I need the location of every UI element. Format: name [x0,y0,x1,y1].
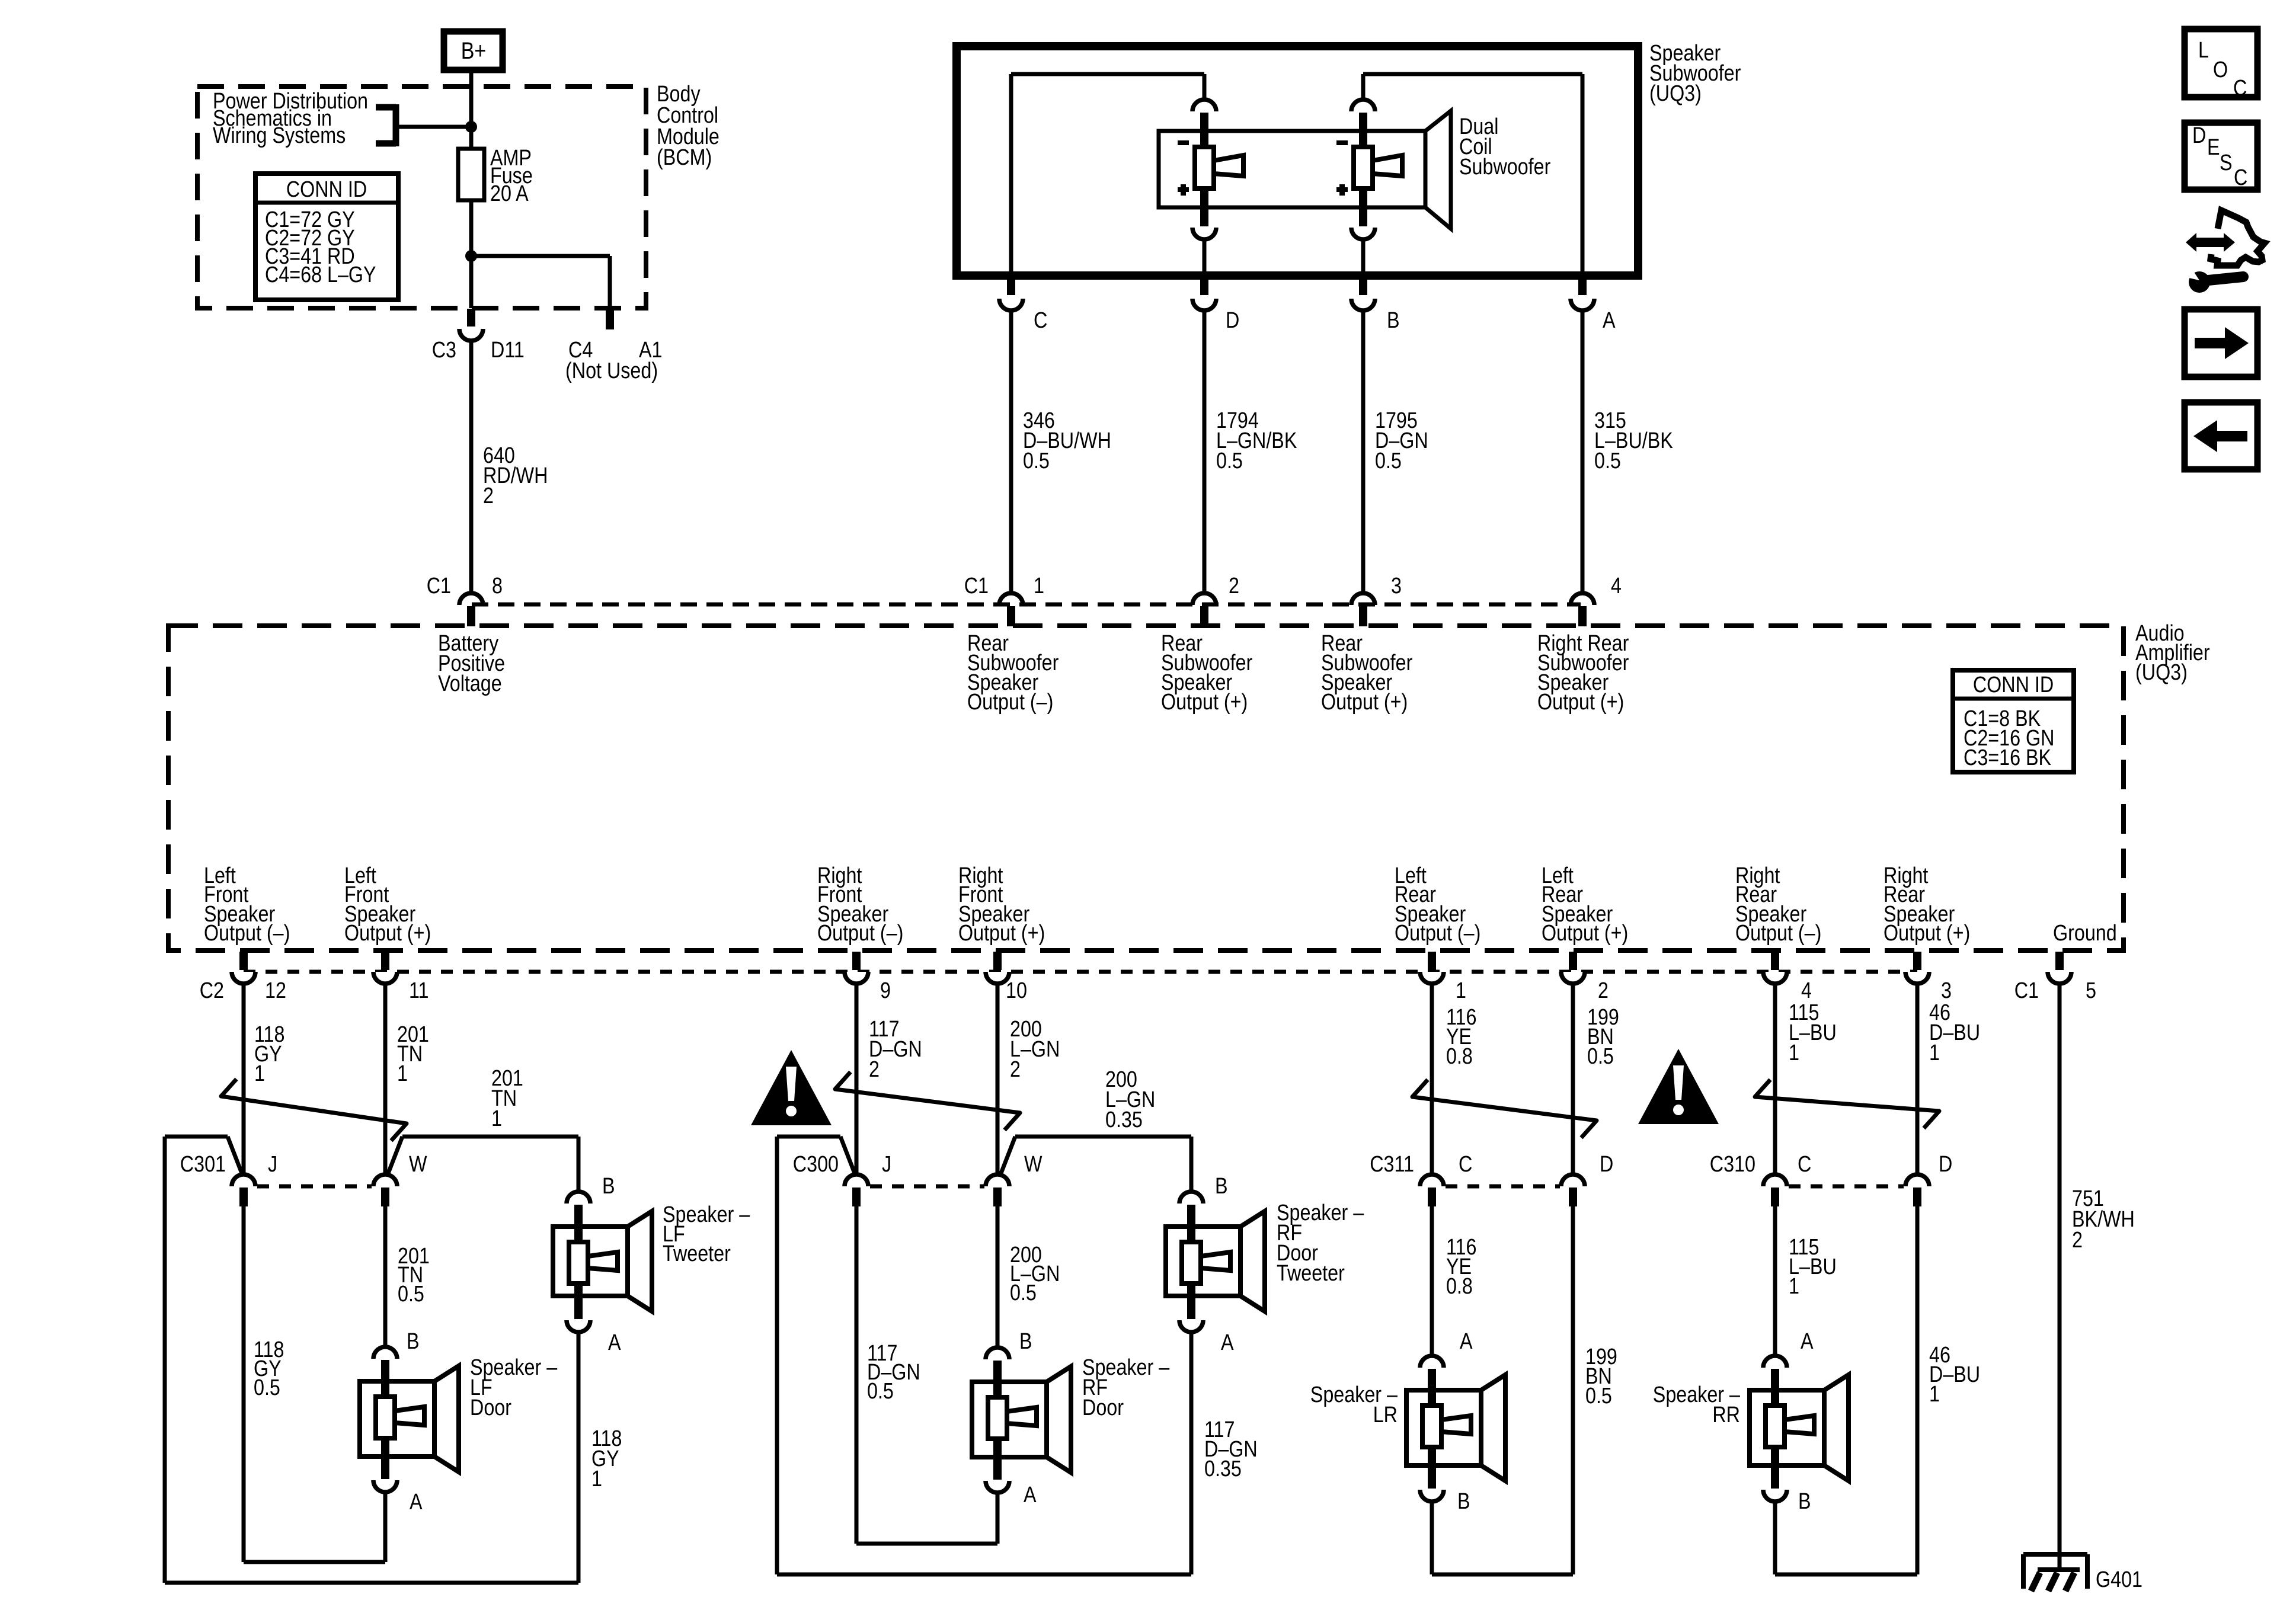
svg-text:0.5: 0.5 [867,1379,894,1404]
wire amp pin to connector row x=2654 [1571,985,1575,1173]
connector row dashed line C311 [1446,1185,1560,1189]
wire label 115 L-BU 1 (speaker side) [1789,1235,1837,1299]
svg-text:Door: Door [1082,1395,1124,1420]
svg-text:Wiring Systems: Wiring Systems [213,123,346,148]
wire right coil to box edge [1361,239,1366,274]
label A (LF tweeter) [608,1330,621,1355]
label Rear Subwoofer Speaker Output (+) pin2 [1161,631,1253,715]
svg-text:D: D [1600,1152,1613,1177]
connector C300 pin J [845,1174,868,1206]
label Right Rear Speaker Output (–) [1735,863,1821,946]
svg-text:0.35: 0.35 [1204,1457,1242,1481]
svg-text:Output (+): Output (+) [1161,690,1248,715]
svg-text:0.5: 0.5 [254,1375,280,1400]
subwoofer left coil bottom terminal [1192,187,1216,239]
label B (subwoofer) [1387,308,1400,333]
wire 117 D-GN 0.35 (RF tweeter A loop to C300-J) [777,1137,1191,1574]
pin label 2 [1229,574,1239,598]
polarity plus right coil [1336,184,1348,196]
svg-text:(Not Used): (Not Used) [565,359,658,383]
RF tweeter branch from C300-W [1001,1137,1191,1190]
label Left Rear Speaker Output (+) [1542,863,1628,946]
svg-text:3: 3 [1941,978,1952,1003]
wire 751 BK/WH 2 (ground) [2058,985,2062,1570]
wire label 46 D-BU 1 (amp side) [1929,1000,1980,1065]
svg-text:Output (–): Output (–) [204,921,290,946]
pin label 2 (C2) [1598,978,1609,1003]
svg-text:C2: C2 [200,978,224,1003]
wire label 1795 D–GN 0.5 [1375,408,1428,473]
svg-text:(BCM): (BCM) [657,145,712,170]
speaker LF tweeter terminal A connector [567,1282,590,1332]
speaker RF door terminal A connector [986,1438,1009,1493]
label G401 [2096,1567,2142,1592]
pin label 1 (C2) [1456,978,1466,1003]
svg-text:C300: C300 [793,1152,839,1177]
svg-text:A: A [1801,1329,1814,1354]
label A (RR) [1801,1329,1814,1354]
wire label 116 YE 0.8 (amp side) [1446,1005,1476,1069]
speaker - RR [1750,1375,1849,1481]
label Ground [2053,921,2117,946]
label Speaker RF Door Tweeter [1277,1201,1364,1286]
svg-text:0.5: 0.5 [1010,1281,1037,1305]
svg-text:Output (+): Output (+) [344,921,431,946]
svg-text:9: 9 [880,978,891,1003]
pin label 10 [1006,978,1027,1003]
svg-text:C1: C1 [427,574,451,598]
twisted pair symbol LF [221,1079,407,1141]
svg-text:L: L [2198,38,2209,63]
svg-text:J: J [882,1152,891,1177]
wire 199 BN 0.5 (LR B loop to C311-D) [1432,1206,1573,1574]
svg-text:0.5: 0.5 [1587,1044,1614,1069]
subwoofer horn cone [1425,111,1451,229]
pin label 12 [265,978,286,1003]
ground G401 symbol [2023,1554,2087,1591]
svg-text:2: 2 [1010,1057,1021,1082]
connector pin 10 at amplifier bottom edge [986,952,1009,984]
fuse AMP Fuse 20 A [458,149,484,200]
svg-text:C4=68 L–GY: C4=68 L–GY [265,263,376,287]
svg-text:Subwoofer: Subwoofer [1459,155,1551,180]
subwoofer internal wire C side [1011,74,1204,274]
connector pin 4 at amplifier bottom edge [1763,952,1787,984]
svg-text:Tweeter: Tweeter [663,1241,731,1266]
wire branch to C4 A1 stub [471,256,610,308]
svg-text:C: C [1034,308,1047,333]
label B (LR) [1457,1489,1470,1514]
connector C300 pin W [986,1174,1009,1206]
wire 117 D-GN 0.5 (C300-J to RF door A) [856,1206,997,1544]
label C (C311) [1459,1152,1472,1177]
svg-text:1: 1 [1456,978,1466,1003]
connector row dashed line C301 [257,1185,372,1189]
svg-text:C: C [2233,76,2247,101]
connector row dashed line C300 [870,1185,984,1189]
svg-text:2: 2 [483,484,494,508]
wire amp pin to connector row x=411 [242,985,246,1173]
wire 315 L–BU/BK [1581,312,1585,592]
wire label 117 D-GN 2 [869,1017,922,1082]
connector C1 pin 8 into amplifier [459,593,483,626]
svg-text:C3=16 BK: C3=16 BK [1964,745,2052,770]
svg-text:J: J [268,1152,277,1177]
label Right Rear Speaker Output (+) [1884,863,1970,946]
connector C311 pin D [1561,1174,1585,1206]
svg-text:Output (+): Output (+) [1321,690,1408,715]
svg-text:4: 4 [1611,574,1622,598]
label Right Front Speaker Output (–) [817,863,903,946]
wire 346 D–BU/WH [1009,312,1013,592]
label Speaker LF Tweeter [663,1202,750,1266]
label Left Front Speaker Output (+) [344,863,431,946]
CONN ID table (amplifier) [1953,670,2074,772]
svg-text:C311: C311 [1370,1152,1414,1177]
label C310 [1710,1152,1755,1177]
svg-text:(UQ3): (UQ3) [2135,660,2188,685]
label A (RF door) [1024,1483,1037,1507]
label Right Rear Subwoofer Speaker Output (+) [1537,631,1629,715]
power symbol B+ (battery positive terminal) [444,31,503,70]
label C (subwoofer) [1034,308,1047,333]
svg-text:1: 1 [1034,574,1044,598]
label C311 [1370,1152,1414,1177]
svg-text:20 A: 20 A [490,181,529,206]
svg-text:S: S [2220,151,2233,175]
svg-text:0.35: 0.35 [1105,1108,1143,1132]
svg-text:1: 1 [1929,1041,1940,1065]
wire amp pin to connector row x=650 [383,985,388,1173]
svg-text:Tweeter: Tweeter [1277,1261,1345,1286]
label Battery Positive Voltage [438,631,505,696]
label A (RF tweeter) [1221,1330,1234,1355]
wire label 751 BK/WH 2 [2072,1186,2135,1253]
svg-text:1: 1 [1789,1041,1799,1065]
label C3 [432,338,456,363]
connector pin 9 at amplifier bottom edge [845,952,868,984]
wire amp pin to connector row x=1445 [855,985,859,1173]
label Left Front Speaker Output (–) [204,863,290,946]
connector C301 pin W [373,1174,397,1206]
label B (RF door) [1019,1329,1032,1354]
svg-text:C: C [1459,1152,1472,1177]
svg-text:B: B [1798,1489,1811,1514]
amplifier top connector face dashed line [472,603,1581,607]
svg-text:5: 5 [2086,978,2096,1003]
svg-text:0.5: 0.5 [1585,1384,1612,1409]
svg-text:C3: C3 [432,338,456,363]
svg-text:D: D [1939,1152,1952,1177]
svg-text:1: 1 [397,1061,408,1086]
label Dual Coil Subwoofer [1459,114,1551,180]
svg-text:C: C [2234,165,2247,190]
svg-text:B: B [407,1329,420,1354]
label Rear Subwoofer Speaker Output (+) pin3 [1321,631,1413,715]
label B (RF tweeter) [1215,1174,1228,1199]
connector pin 5 at amplifier bottom edge [2048,952,2071,984]
label Speaker - RR [1653,1382,1741,1427]
svg-text:1: 1 [491,1106,502,1131]
connector pin into amplifier (wire 315) [1571,593,1594,626]
svg-text:10: 10 [1006,978,1027,1003]
polarity minus left coil [1178,140,1189,145]
wire amp pin to connector row x=3475 [2058,985,2062,1569]
wire 116 YE 0.8 (C311-C to LR speaker A) [1430,1206,1434,1355]
wire label 1794 L–GN/BK 0.5 [1216,408,1297,473]
svg-text:0.8: 0.8 [1446,1274,1473,1299]
pin label 4 [1611,574,1622,598]
speaker subwoofer enclosure box (UQ3) [957,46,1638,276]
pin label 1 [1034,574,1044,598]
svg-text:Output (–): Output (–) [1735,921,1821,946]
BCM dashed module box [197,87,646,308]
wire 115 L-BU 1 (C310-C to RR speaker A) [1773,1206,1777,1355]
polarity plus left coil [1178,184,1189,196]
speaker LF tweeter terminal B connector [567,1192,590,1243]
amplifier bottom connector face dashed line [244,970,1917,974]
wire fuse to branch junction [469,200,474,256]
wire label 201 TN 0.5 [398,1244,430,1307]
svg-text:Output (–): Output (–) [817,921,903,946]
pin label 9 [880,978,891,1003]
pin label 3 [1391,574,1402,598]
icon DESC box [2185,123,2257,190]
wire label 201 TN 1 (amp side) [397,1022,429,1086]
wire tap to power distribution bracket [396,125,471,129]
wire B+ to fuse [469,70,474,149]
speaker RR terminal B connector [1763,1446,1787,1502]
connector pin below box (B wire) [1351,276,1375,311]
wire 201 TN 0.5 (C301-W to LF door B) [383,1206,388,1346]
wire label 115 L-BU 1 (amp side) [1789,1000,1837,1065]
connector C301 pin J [232,1174,255,1206]
label Audio Amplifier (UQ3) [2135,621,2210,685]
label A1 [639,338,662,363]
label C301 [180,1152,226,1177]
connector pin below box (C wire) [999,276,1023,311]
svg-text:11: 11 [409,978,429,1003]
polarity minus right coil [1336,140,1348,145]
wire label 200 L-GN 0.5 [1010,1243,1060,1305]
twisted pair symbol RF [835,1072,1020,1130]
label Left Rear Speaker Output (–) [1395,863,1480,946]
svg-text:O: O [2213,57,2228,82]
speaker LF door terminal B connector [373,1347,397,1398]
speaker RF door terminal B connector [986,1347,1009,1398]
svg-text:0.5: 0.5 [1216,449,1243,473]
svg-text:RR: RR [1712,1403,1740,1427]
svg-text:B+: B+ [461,37,487,63]
svg-text:A: A [410,1490,423,1515]
svg-text:8: 8 [492,574,503,598]
svg-text:12: 12 [265,978,286,1003]
svg-text:2: 2 [2072,1228,2083,1253]
wire amp pin to connector row x=1683 [996,985,1000,1173]
connector C3 pin D11 at BCM edge [459,309,483,341]
dual coil subwoofer body box [1159,131,1425,207]
svg-text:CONN ID: CONN ID [286,177,367,202]
connector pin 1 at amplifier bottom edge [1420,952,1444,984]
pin label 11 [409,978,429,1003]
wire label 46 D-BU 1 (speaker side) [1929,1343,1980,1407]
label C (C310) [1798,1152,1811,1177]
pin label 5 [2086,978,2096,1003]
pin A1 (Not Used) stub [606,308,614,329]
warning triangle (rear speakers) [1638,1049,1719,1124]
svg-text:2: 2 [1598,978,1609,1003]
svg-text:Output (–): Output (–) [967,690,1053,715]
wire 118 GY 0.5 (C301-J to LF door A) [244,1206,385,1562]
svg-text:3: 3 [1391,574,1402,598]
svg-text:C301: C301 [180,1152,226,1177]
speaker RF tweeter terminal B connector [1179,1192,1203,1243]
svg-text:Ground: Ground [2053,921,2117,946]
svg-text:D11: D11 [491,338,525,363]
svg-text:A: A [1024,1483,1037,1507]
speaker LR terminal A connector [1420,1356,1444,1407]
audio amplifier dashed module box [168,626,2124,950]
CONN ID table (BCM) [255,174,398,300]
icon back arrow box [2185,402,2257,469]
svg-text:B: B [1387,308,1400,333]
svg-text:C: C [1798,1152,1811,1177]
svg-text:1: 1 [1789,1274,1799,1299]
label (Not Used) [565,359,658,383]
subwoofer left coil top terminal [1192,100,1216,149]
svg-text:2: 2 [869,1057,880,1082]
junction dot fuse branch [465,250,477,262]
svg-text:Output (+): Output (+) [1884,921,1970,946]
junction dot at power distribution tap [465,121,477,133]
svg-text:Door: Door [470,1395,511,1420]
icon schematic navigation (double arrow, outline, wrench) [2181,210,2265,293]
label D11 [491,338,525,363]
wire 200 L-GN 0.5 (C300-W to RF door B) [996,1206,1000,1346]
connector pin below box (A wire) [1571,276,1594,311]
label C1 (ground conn) [2014,978,2039,1003]
label C1 (amp top) [427,574,451,598]
svg-text:Output (+): Output (+) [958,921,1045,946]
svg-text:0.5: 0.5 [1594,449,1621,473]
note Power Distribution Schematics in Wiring Systems [213,89,368,148]
svg-text:C1: C1 [2014,978,2039,1003]
speaker RR terminal A connector [1763,1356,1787,1407]
wire 1794 L–GN/BK [1203,312,1207,592]
label W (C301) [409,1152,427,1177]
svg-text:1: 1 [254,1061,265,1086]
wire label 346 D–BU/WH 0.5 [1023,408,1111,473]
label Speaker - LF Door [470,1355,558,1420]
connector pin into amplifier (wire 346) [999,593,1023,626]
label Speaker Subwoofer (UQ3) [1649,41,1741,106]
wire 640 RD/WH [469,342,474,592]
label Right Front Speaker Output (+) [958,863,1045,946]
wire 118 GY 1 (LF tweeter A loop to C301-J) [165,1137,578,1583]
svg-text:D: D [2192,123,2206,148]
wire 1795 D–GN [1361,312,1366,592]
icon forward arrow box [2185,309,2257,377]
connector C310 pin C [1763,1174,1787,1206]
wire label 200 L-GN 0.35 (tweeter branch) [1105,1067,1155,1132]
label AMP Fuse 20 A [490,146,533,206]
svg-text:Output (–): Output (–) [1395,921,1480,946]
svg-text:B: B [602,1174,615,1199]
svg-text:A: A [1603,308,1616,333]
pin label 3 (C2) [1941,978,1952,1003]
connector pin 11 at amplifier bottom edge [373,952,397,984]
warning triangle (front speakers) [751,1050,832,1125]
wire label 201 TN 1 (tweeter branch) [491,1066,523,1131]
label D (C310) [1939,1152,1952,1177]
svg-text:E: E [2207,135,2220,160]
svg-text:LR: LR [1373,1403,1398,1427]
speaker - LF Tweeter [553,1211,652,1311]
subwoofer right voice coil [1354,147,1402,188]
label C300 [793,1152,839,1177]
svg-text:W: W [1024,1152,1043,1177]
label B (RR) [1798,1489,1811,1514]
wire amp pin to connector row x=3235 [1916,985,1920,1173]
wire label 118 GY 0.5 [254,1337,284,1400]
speaker - LR [1406,1375,1505,1481]
connector pin into amplifier (wire 1794) [1192,593,1216,626]
connector C311 pin C [1420,1174,1444,1206]
label C2 (amp bottom) [200,978,224,1003]
svg-text:CONN ID: CONN ID [1973,673,2054,697]
connector pin 12 at amplifier bottom edge [232,952,255,984]
subwoofer right coil top terminal [1351,100,1375,149]
label A (LR) [1460,1329,1473,1354]
svg-text:Voltage: Voltage [438,671,502,696]
twisted pair symbol RR [1755,1080,1939,1128]
svg-text:D: D [1226,308,1239,333]
svg-text:B: B [1457,1489,1470,1514]
svg-text:Output (+): Output (+) [1542,921,1628,946]
subwoofer internal wire A side [1363,74,1582,274]
connector pin into amplifier (wire 1795) [1351,593,1375,626]
label A (LF door) [410,1490,423,1515]
svg-text:A: A [1221,1330,1234,1355]
svg-text:0.5: 0.5 [398,1282,424,1307]
wire label 640 RD/WH 2 [483,443,548,508]
label D (C311) [1600,1152,1613,1177]
wire label 118 GY 1 (tweeter side) [591,1426,622,1491]
wire label 200 L-GN 2 [1010,1017,1060,1082]
label Speaker - RF Door [1082,1355,1170,1420]
label 8 [492,574,503,598]
twisted pair symbol LR [1412,1080,1597,1138]
speaker LF door terminal A connector [373,1437,397,1492]
connector pin 2 at amplifier bottom edge [1561,952,1585,984]
svg-text:C1: C1 [964,574,989,598]
wire amp pin to connector row x=2995 [1773,985,1777,1173]
wire amp pin to connector row x=2416 [1430,985,1434,1173]
svg-text:Output (+): Output (+) [1537,690,1624,715]
wire junction to BCM edge [469,256,474,308]
label W (C300) [1024,1152,1043,1177]
wire 46 D-BU 1 (RR B loop to C310-D) [1775,1206,1917,1574]
label B (LF door) [407,1329,420,1354]
wire left coil to box edge [1203,239,1207,274]
svg-text:A: A [1460,1329,1473,1354]
wire label 117 D-GN 0.35 [1204,1417,1258,1481]
bracket for power distribution note [376,104,396,146]
wire label 118 GY 1 (amp side) [254,1022,284,1086]
wire label 199 BN 0.5 (amp side) [1587,1005,1619,1069]
label B (LF tweeter) [602,1174,615,1199]
speaker RF tweeter terminal A connector [1179,1282,1203,1332]
